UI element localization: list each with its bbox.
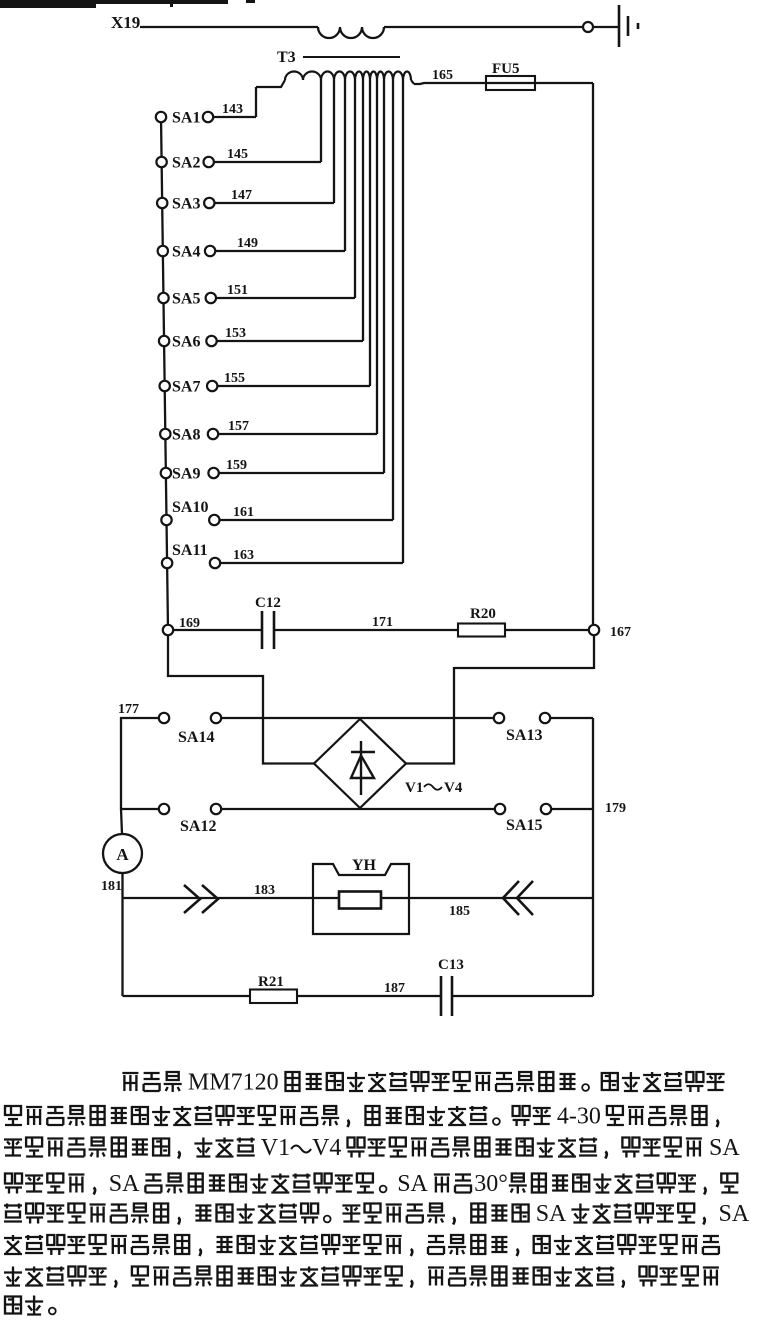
wire — [168, 635, 314, 763]
svg-text:SA: SA — [536, 1201, 567, 1227]
svg-text:R21: R21 — [258, 974, 284, 990]
text line 8 — [5, 1296, 56, 1315]
node terminal on X19 line — [583, 22, 593, 32]
switch SA14 — [159, 713, 221, 746]
svg-text:SA5: SA5 — [172, 291, 200, 308]
svg-text:155: 155 — [224, 371, 245, 386]
switch SA9 with tap 159 — [161, 80, 384, 483]
text line 2 — [5, 1104, 718, 1130]
svg-text:X19: X19 — [111, 13, 140, 32]
svg-text:SA3: SA3 — [172, 196, 200, 213]
svg-text:C12: C12 — [255, 595, 281, 611]
svg-text:30°: 30° — [474, 1171, 508, 1197]
bridge label V1~V4 — [405, 780, 463, 796]
rotation arrow left — [184, 885, 218, 913]
svg-text:SA: SA — [109, 1171, 140, 1197]
svg-text:171: 171 — [372, 615, 393, 630]
svg-text:SA8: SA8 — [172, 427, 200, 444]
svg-text:SA13: SA13 — [506, 727, 542, 744]
wire node 171 — [275, 629, 458, 631]
wire — [221, 717, 494, 719]
svg-text:SA11: SA11 — [172, 542, 208, 559]
svg-text:SA9: SA9 — [172, 466, 200, 483]
wire — [453, 995, 593, 997]
svg-text:SA10: SA10 — [172, 499, 208, 516]
wire node 165 — [414, 83, 593, 84]
wire node 179 — [551, 801, 626, 816]
svg-text:T3: T3 — [277, 49, 296, 66]
text line 4 — [5, 1171, 738, 1197]
switch SA13 — [494, 713, 550, 744]
svg-text:163: 163 — [233, 548, 254, 563]
svg-text:MM7120: MM7120 — [188, 1070, 279, 1096]
svg-text:159: 159 — [226, 458, 247, 473]
text line 7 — [4, 1267, 719, 1288]
svg-text:177: 177 — [118, 702, 139, 717]
svg-text:SA12: SA12 — [180, 818, 216, 835]
left switch column wire — [161, 117, 168, 630]
svg-text:179: 179 — [605, 801, 626, 816]
svg-text:SA6: SA6 — [172, 334, 200, 351]
svg-text:V4: V4 — [444, 780, 463, 796]
wire node 177 — [121, 718, 159, 809]
svg-text:SA14: SA14 — [178, 729, 214, 746]
wire — [593, 26, 618, 28]
switch SA3 with tap 147 — [157, 80, 334, 213]
svg-text:185: 185 — [449, 904, 470, 919]
switch SA2 with tap 145 — [156, 80, 321, 172]
svg-text:157: 157 — [228, 419, 249, 434]
node 167 terminal — [589, 625, 631, 640]
page border artifact — [0, 0, 255, 8]
inductor T3 primary winding — [318, 27, 384, 38]
wire — [550, 717, 593, 719]
svg-text:SA1: SA1 — [172, 110, 200, 127]
svg-text:SA4: SA4 — [172, 244, 200, 261]
svg-text:143: 143 — [222, 102, 243, 117]
resistor R21 — [250, 974, 297, 1003]
switch SA10 with tap 161 — [161, 80, 393, 525]
svg-text:SA: SA — [709, 1135, 740, 1161]
wire node 181 — [121, 873, 123, 996]
wire — [121, 808, 159, 810]
svg-text:V4: V4 — [312, 1135, 341, 1161]
switch SA8 with tap 157 — [160, 80, 377, 444]
svg-text:167: 167 — [610, 625, 631, 640]
ammeter A — [103, 834, 142, 873]
fuse FU5 — [486, 61, 535, 90]
switch SA4 with tap 149 — [158, 80, 345, 261]
svg-text:187: 187 — [384, 981, 405, 996]
switch SA1 with tap 143 — [156, 87, 256, 127]
wire node 187 — [297, 995, 440, 997]
wire — [505, 629, 589, 631]
wire — [592, 83, 594, 624]
svg-text:V1: V1 — [261, 1135, 290, 1161]
svg-text:SA: SA — [397, 1171, 428, 1197]
svg-text:A: A — [116, 845, 129, 864]
wire — [406, 635, 594, 763]
switch SA6 with tap 153 — [159, 80, 363, 351]
svg-text:SA7: SA7 — [172, 379, 200, 396]
bridge rectifier V1~V4 — [314, 719, 406, 808]
svg-text:R20: R20 — [470, 606, 496, 622]
text line 6 — [4, 1235, 719, 1256]
svg-text:151: 151 — [227, 283, 248, 298]
node 169 terminal — [163, 616, 200, 635]
switch SA15 — [495, 804, 551, 834]
switch SA11 with tap 163 — [162, 80, 403, 568]
svg-text:183: 183 — [254, 883, 275, 898]
svg-text:SA2: SA2 — [172, 155, 200, 172]
resistor R20 — [458, 606, 505, 637]
wire — [123, 995, 251, 997]
wire node 183 and 185 — [123, 897, 594, 899]
wire — [121, 809, 122, 834]
plug contact symbol — [619, 5, 638, 47]
right bus wire — [592, 718, 594, 996]
rotation arrow right — [503, 881, 533, 915]
transformer core — [303, 56, 400, 58]
text line 1 — [122, 1070, 724, 1096]
capacitor C13 — [438, 957, 464, 1016]
switch SA5 with tap 151 — [158, 80, 355, 308]
wire — [384, 26, 583, 28]
svg-text:181: 181 — [101, 879, 122, 894]
svg-text:FU5: FU5 — [492, 61, 520, 77]
svg-text:169: 169 — [179, 616, 200, 631]
wire — [174, 629, 262, 631]
electromagnetic chuck YH body — [313, 864, 409, 934]
switch SA7 with tap 155 — [160, 80, 371, 396]
svg-text:165: 165 — [432, 68, 453, 83]
wire — [221, 808, 495, 810]
svg-text:4-30: 4-30 — [557, 1104, 601, 1130]
svg-text:V1: V1 — [405, 780, 423, 796]
text line 5 — [4, 1201, 750, 1227]
text line 3 — [4, 1135, 740, 1161]
svg-text:147: 147 — [231, 188, 252, 203]
svg-text:YH: YH — [352, 857, 377, 874]
svg-text:C13: C13 — [438, 957, 464, 973]
transformer T3 secondary winding — [256, 72, 414, 88]
svg-text:SA15: SA15 — [506, 817, 542, 834]
switch SA12 — [159, 804, 221, 835]
svg-text:153: 153 — [225, 326, 246, 341]
capacitor C12 — [255, 595, 281, 649]
wire — [140, 26, 318, 28]
svg-text:149: 149 — [237, 236, 258, 251]
svg-text:161: 161 — [233, 505, 254, 520]
svg-text:145: 145 — [227, 147, 248, 162]
svg-text:SA: SA — [719, 1201, 750, 1227]
chuck coil — [339, 892, 381, 909]
